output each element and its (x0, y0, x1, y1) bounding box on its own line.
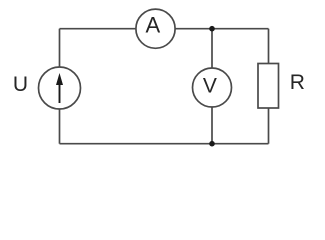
voltmeter V (193, 68, 232, 107)
svg-text:A: A (145, 13, 160, 38)
svg-text:U: U (13, 73, 28, 96)
wire right (resistor branch) (268, 29, 270, 144)
ammeter A (136, 9, 175, 48)
svg-text:R: R (290, 71, 305, 94)
junction node top (209, 26, 215, 32)
wire top (node between source, ammeter, resistor branch) (60, 28, 269, 30)
svg-text:V: V (203, 75, 217, 98)
current source U (circle with upward arrow) (39, 67, 81, 109)
resistor R (258, 64, 279, 109)
wire left (source branch) (59, 29, 61, 144)
wire bottom (return net) (60, 143, 269, 145)
wire middle (voltmeter branch) (211, 29, 213, 144)
junction node bottom (209, 141, 215, 147)
